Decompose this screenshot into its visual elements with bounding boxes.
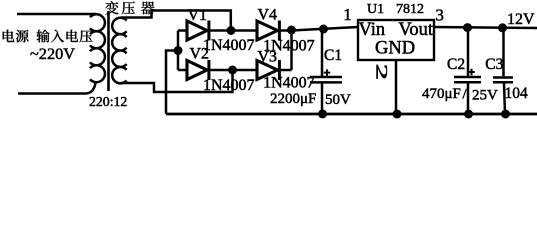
svg-text:C3: C3 (485, 56, 503, 73)
op-amp regulator U1 box outline (358, 20, 434, 60)
transformer T1 secondary winding (112, 18, 126, 84)
svg-text:1: 1 (343, 5, 352, 24)
svg-text:2: 2 (373, 64, 391, 80)
svg-text:50V: 50V (325, 92, 351, 108)
capacitor C2 plus sign (468, 69, 474, 75)
wire primary top lead (17, 13, 97, 16)
junction dot C3 top (498, 23, 507, 32)
wire V3 cathode to node C (281, 69, 292, 72)
svg-text:220:12: 220:12 (89, 94, 127, 109)
wire node C vertical V4 V3 cathodes (290, 31, 293, 71)
svg-text:GND: GND (375, 39, 415, 59)
capacitor C2 plates (454, 77, 481, 82)
svg-text:Vin: Vin (359, 20, 386, 40)
junction dot C3 bottom (501, 110, 510, 119)
node D junction dot (228, 66, 237, 75)
svg-text:U1: U1 (367, 2, 384, 17)
node B junction dot (227, 26, 236, 35)
svg-text:1N4007: 1N4007 (203, 37, 255, 54)
diode V3 cathode bar (278, 60, 281, 80)
svg-text:C2: C2 (447, 56, 465, 73)
wire primary bottom lead (18, 81, 96, 94)
junction dot C2 bottom (464, 110, 473, 119)
svg-text:25V: 25V (472, 88, 498, 104)
wire V2 anode (178, 69, 188, 72)
svg-text:~220V: ~220V (30, 44, 75, 63)
wire V4 cathode to node C (281, 29, 292, 32)
transformer T1 core (107, 11, 110, 91)
wire C3 lower lead (504, 83, 505, 114)
node A junction dot (174, 46, 183, 55)
junction dot C2 top (463, 23, 472, 32)
node C junction dot (287, 26, 296, 35)
wire C2 upper lead (467, 28, 470, 76)
diode V2 outline (187, 61, 207, 80)
diode V2 cathode bar (207, 60, 210, 80)
diode V1 cathode bar (207, 21, 210, 41)
wire C1 lower lead (321, 84, 324, 115)
svg-text:104: 104 (505, 85, 529, 102)
junction dot C1 top (319, 25, 328, 34)
svg-text:7812: 7812 (396, 2, 424, 17)
svg-text:470μF: 470μF (422, 86, 461, 102)
svg-text:1N4007: 1N4007 (263, 38, 315, 55)
diode V1 outline (187, 21, 207, 40)
capacitor C3 plates (493, 78, 513, 83)
wire V2 cathode to node D (210, 69, 233, 72)
wire U1 pin2 to ground rail (395, 60, 398, 114)
wire V1 cathode to node B (210, 29, 230, 32)
diode V4 cathode bar (278, 21, 281, 41)
wire top rail node C to U1 Vin (292, 27, 359, 31)
junction dot C1 bottom (318, 109, 327, 118)
wire bottom ground rail (166, 113, 537, 116)
wire node A vertical V1 V2 anodes (177, 31, 180, 71)
wire V3 anode from node D (233, 69, 257, 72)
svg-text:12V: 12V (507, 11, 535, 28)
diode V3 outline (257, 61, 278, 80)
wire AC2 secondary bottom to bridge node D (121, 70, 233, 92)
svg-text:1N4007: 1N4007 (263, 75, 315, 92)
wire output rail Vout to 12V terminal (434, 27, 537, 28)
wire C2 lower lead (467, 83, 470, 114)
label transformer name (105, 1, 154, 14)
junction dot U1 pin2 bottom (393, 110, 402, 119)
svg-text:Vout: Vout (398, 20, 433, 40)
wire node A branch to bottom rail (166, 51, 178, 115)
wire C1 upper lead (321, 29, 324, 76)
wire AC1 secondary top to bridge node B (121, 11, 231, 31)
capacitor C1 plus sign (324, 69, 330, 75)
svg-text:3: 3 (435, 6, 444, 25)
wire V1 anode (178, 29, 188, 32)
svg-text:2200μF: 2200μF (270, 91, 316, 107)
svg-text:C1: C1 (324, 47, 342, 64)
transformer T1 primary winding (90, 14, 105, 82)
wire C3 upper lead (502, 28, 505, 77)
wire V4 anode from node B (231, 29, 257, 32)
label input voltage line1 (3, 30, 93, 43)
capacitor C1 plates (310, 77, 342, 82)
diode V4 outline (257, 21, 278, 40)
